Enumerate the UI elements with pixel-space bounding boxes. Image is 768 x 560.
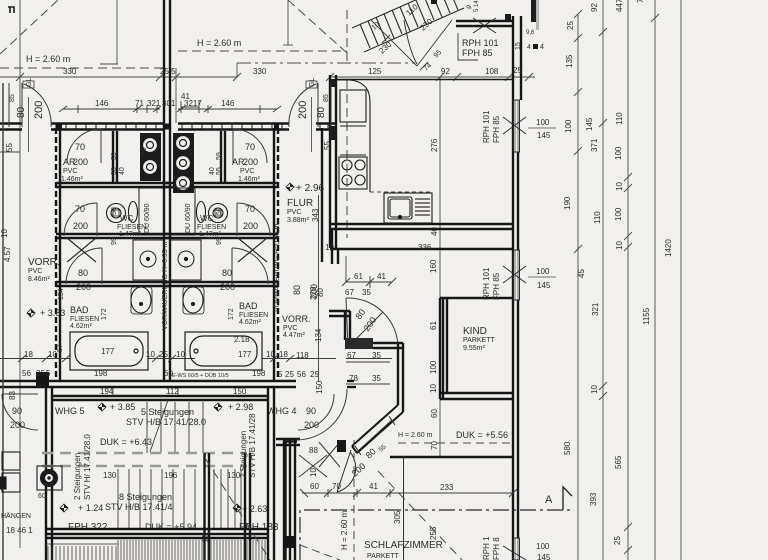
svg-text:447: 447 xyxy=(615,0,624,12)
svg-text:10: 10 xyxy=(615,241,624,250)
svg-text:KIND: KIND xyxy=(463,326,487,337)
svg-text:60: 60 xyxy=(310,482,319,491)
svg-text:4.62m²: 4.62m² xyxy=(239,319,261,326)
svg-text:RPH 1: RPH 1 xyxy=(482,536,491,560)
svg-text:336: 336 xyxy=(418,243,432,252)
svg-text:2.18: 2.18 xyxy=(234,335,250,344)
svg-text:35: 35 xyxy=(362,288,371,297)
svg-text:PARKETT: PARKETT xyxy=(367,553,399,560)
svg-text:FPH 85: FPH 85 xyxy=(462,48,493,58)
svg-text:200: 200 xyxy=(33,101,45,119)
svg-text:200: 200 xyxy=(304,420,319,430)
svg-text:88: 88 xyxy=(309,446,318,455)
svg-text:STV H/B 17.41/28.0: STV H/B 17.41/28.0 xyxy=(126,417,206,427)
svg-text:FPH 85: FPH 85 xyxy=(492,115,501,143)
svg-text:60: 60 xyxy=(38,493,46,500)
svg-text:3.88m²: 3.88m² xyxy=(287,217,309,224)
svg-text:130: 130 xyxy=(227,471,241,480)
svg-text:4.57: 4.57 xyxy=(3,246,12,262)
svg-text:WC: WC xyxy=(200,214,214,223)
svg-text:BAD: BAD xyxy=(70,305,89,315)
svg-text:55: 55 xyxy=(111,167,118,175)
svg-text:15: 15 xyxy=(515,42,522,50)
svg-text:PVC: PVC xyxy=(63,168,77,175)
svg-text:BAD: BAD xyxy=(239,301,258,311)
svg-text:190: 190 xyxy=(563,196,572,210)
svg-text:DU 60/90: DU 60/90 xyxy=(185,203,192,233)
svg-text:25: 25 xyxy=(36,369,45,378)
svg-text:55: 55 xyxy=(323,141,332,150)
svg-text:145: 145 xyxy=(537,281,551,290)
svg-text:1155: 1155 xyxy=(642,307,651,325)
svg-text:69: 69 xyxy=(187,147,194,155)
svg-text:+ 3.85: + 3.85 xyxy=(110,402,135,412)
svg-text:5: 5 xyxy=(46,369,51,378)
svg-text:78: 78 xyxy=(349,374,358,383)
svg-text:343: 343 xyxy=(311,208,320,222)
svg-text:80: 80 xyxy=(292,285,302,295)
svg-text:10: 10 xyxy=(615,182,624,191)
svg-text:172: 172 xyxy=(101,308,108,320)
svg-text:4: 4 xyxy=(527,44,531,51)
svg-text:108: 108 xyxy=(485,67,499,76)
svg-text:8.46m²: 8.46m² xyxy=(28,276,50,283)
svg-text:DUK = +5.56: DUK = +5.56 xyxy=(456,430,508,440)
svg-text:10: 10 xyxy=(266,350,275,359)
svg-text:321: 321 xyxy=(147,99,161,108)
svg-text:DUK = +5.94: DUK = +5.94 xyxy=(145,522,197,532)
svg-text:E-WS 60/5 + DÜB 10/5: E-WS 60/5 + DÜB 10/5 xyxy=(172,372,229,379)
svg-text:60: 60 xyxy=(430,409,439,418)
svg-text:FLIESEN: FLIESEN xyxy=(239,312,268,319)
svg-text:GL: GL xyxy=(26,78,33,87)
svg-text:3217: 3217 xyxy=(184,99,202,108)
svg-text:61: 61 xyxy=(429,321,438,330)
svg-text:92: 92 xyxy=(441,67,450,76)
svg-text:177: 177 xyxy=(101,347,115,356)
svg-text:40: 40 xyxy=(119,167,126,175)
svg-text:45: 45 xyxy=(577,269,586,278)
svg-text:61: 61 xyxy=(354,272,363,281)
svg-text:305: 305 xyxy=(393,510,402,524)
svg-text:18: 18 xyxy=(24,350,33,359)
svg-text:85: 85 xyxy=(9,94,16,102)
svg-text:90: 90 xyxy=(306,406,316,416)
svg-text:+ 2.98: + 2.98 xyxy=(228,402,253,412)
svg-text:194: 194 xyxy=(100,387,114,396)
svg-text:18 46 1: 18 46 1 xyxy=(6,526,33,535)
svg-text:FLIESEN: FLIESEN xyxy=(70,316,99,323)
svg-text:VORR.: VORR. xyxy=(282,314,311,324)
svg-text:393: 393 xyxy=(589,492,598,506)
svg-text:AR: AR xyxy=(63,157,76,167)
svg-text:200: 200 xyxy=(243,157,258,167)
svg-text:1420: 1420 xyxy=(664,239,673,257)
svg-text:301: 301 xyxy=(162,99,176,108)
svg-text:67: 67 xyxy=(347,351,356,360)
svg-text:150: 150 xyxy=(315,380,324,394)
svg-text:5 Steigungen: 5 Steigungen xyxy=(141,407,194,417)
svg-text:118: 118 xyxy=(296,351,309,360)
svg-text:10: 10 xyxy=(590,385,599,394)
svg-text:220: 220 xyxy=(309,286,318,300)
svg-text:200: 200 xyxy=(10,420,25,430)
svg-text:WHG 4: WHG 4 xyxy=(267,406,297,416)
svg-text:10: 10 xyxy=(429,384,438,393)
svg-text:255: 255 xyxy=(429,526,438,540)
svg-text:80: 80 xyxy=(16,106,27,118)
svg-text:100: 100 xyxy=(536,542,550,551)
svg-text:371: 371 xyxy=(590,138,599,152)
svg-text:233: 233 xyxy=(440,483,454,492)
svg-text:35: 35 xyxy=(372,351,381,360)
svg-text:200: 200 xyxy=(73,221,88,231)
svg-text:330: 330 xyxy=(63,67,77,76)
svg-text:VORR.: VORR. xyxy=(28,257,60,268)
svg-text:1.46m²: 1.46m² xyxy=(238,176,260,183)
svg-text:+ 3.83: + 3.83 xyxy=(40,308,65,318)
svg-text:110: 110 xyxy=(593,211,602,224)
svg-text:50: 50 xyxy=(111,207,118,215)
svg-text:VORMAUERUNG H=0.95 m: VORMAUERUNG H=0.95 m xyxy=(274,223,281,312)
svg-text:25: 25 xyxy=(159,350,168,359)
svg-text:WC: WC xyxy=(120,214,134,223)
svg-text:145: 145 xyxy=(537,131,551,140)
svg-text:70: 70 xyxy=(245,204,255,214)
svg-text:VORMAUERUNG H=0.95 m: VORMAUERUNG H=0.95 m xyxy=(162,241,169,330)
svg-text:69: 69 xyxy=(141,147,148,155)
svg-text:70: 70 xyxy=(75,204,85,214)
svg-text:+ 1.24: + 1.24 xyxy=(78,503,103,513)
svg-text:40: 40 xyxy=(209,167,216,175)
svg-text:HÄNGEN: HÄNGEN xyxy=(1,512,31,520)
svg-text:FPH 8: FPH 8 xyxy=(492,537,501,560)
svg-text:41: 41 xyxy=(369,482,378,491)
svg-text:146: 146 xyxy=(221,99,235,108)
svg-text:100: 100 xyxy=(564,119,573,133)
svg-text:4.62m²: 4.62m² xyxy=(70,323,92,330)
svg-text:100: 100 xyxy=(536,267,550,276)
svg-text:59: 59 xyxy=(216,152,223,160)
svg-text:60: 60 xyxy=(164,369,173,378)
svg-text:85: 85 xyxy=(323,94,330,102)
svg-text:25: 25 xyxy=(513,66,522,75)
svg-text:RPH 101: RPH 101 xyxy=(482,110,491,143)
svg-text:70: 70 xyxy=(245,142,255,152)
svg-text:H = 2.60 m: H = 2.60 m xyxy=(26,54,70,64)
svg-text:135: 135 xyxy=(565,54,574,68)
svg-text:55: 55 xyxy=(216,167,223,175)
svg-text:92: 92 xyxy=(590,3,599,12)
svg-text:25: 25 xyxy=(566,21,575,30)
svg-text:198: 198 xyxy=(252,369,266,378)
svg-text:83: 83 xyxy=(8,391,17,400)
svg-text:25: 25 xyxy=(201,533,210,542)
svg-text:100: 100 xyxy=(614,146,623,160)
svg-text:100: 100 xyxy=(536,118,550,127)
svg-text:80: 80 xyxy=(78,268,88,278)
svg-text:50: 50 xyxy=(216,207,223,215)
svg-text:1.46m²: 1.46m² xyxy=(61,176,83,183)
svg-text:18: 18 xyxy=(279,350,288,359)
svg-text:196: 196 xyxy=(164,471,178,480)
svg-text:70: 70 xyxy=(75,142,85,152)
svg-text:+ 2.96: + 2.96 xyxy=(296,183,325,194)
svg-text:10: 10 xyxy=(146,350,155,359)
svg-text:99: 99 xyxy=(111,237,118,245)
svg-text:10: 10 xyxy=(325,243,334,252)
svg-text:172: 172 xyxy=(228,308,235,320)
svg-text:WHG 5: WHG 5 xyxy=(55,406,85,416)
svg-text:PVC: PVC xyxy=(240,168,254,175)
svg-text:71: 71 xyxy=(135,99,144,108)
svg-text:200: 200 xyxy=(76,282,91,292)
svg-text:FLUR: FLUR xyxy=(287,198,313,209)
svg-text:RPH 101: RPH 101 xyxy=(482,267,491,300)
svg-text:7: 7 xyxy=(636,0,645,3)
svg-text:160: 160 xyxy=(429,259,438,273)
svg-text:70: 70 xyxy=(430,441,439,450)
svg-text:10: 10 xyxy=(176,350,185,359)
svg-text:1.47m²: 1.47m² xyxy=(199,231,221,238)
svg-text:RPH 101: RPH 101 xyxy=(462,38,499,48)
svg-text:H = 2.60 m: H = 2.60 m xyxy=(197,38,241,48)
svg-text:125: 125 xyxy=(368,67,382,76)
svg-text:67: 67 xyxy=(345,288,354,297)
svg-text:FLIESEN: FLIESEN xyxy=(117,224,146,231)
svg-text:35: 35 xyxy=(372,374,381,383)
svg-text:2 Steigungen: 2 Steigungen xyxy=(73,453,82,500)
svg-text:321: 321 xyxy=(591,302,600,316)
svg-text:1.47m²: 1.47m² xyxy=(119,231,141,238)
svg-text:PVC: PVC xyxy=(28,268,42,275)
svg-text:200: 200 xyxy=(297,101,309,119)
svg-text:STV H/B 17.41/28: STV H/B 17.41/28 xyxy=(248,413,257,478)
svg-text:H = 2.60 m: H = 2.60 m xyxy=(398,432,433,439)
svg-text:110: 110 xyxy=(615,112,624,125)
svg-text:9,6: 9,6 xyxy=(526,30,535,36)
svg-text:100: 100 xyxy=(429,360,438,374)
svg-text:80: 80 xyxy=(316,106,327,118)
svg-text:145: 145 xyxy=(537,553,551,560)
svg-text:57: 57 xyxy=(57,344,64,352)
svg-text:DUK = +6.43: DUK = +6.43 xyxy=(100,437,152,447)
svg-text:FPH 85: FPH 85 xyxy=(492,272,501,300)
svg-text:H = 2.60 m: H = 2.60 m xyxy=(340,510,349,550)
svg-text:130: 130 xyxy=(103,471,117,480)
svg-text:FPH 322: FPH 322 xyxy=(68,522,108,533)
svg-text:200: 200 xyxy=(220,282,235,292)
svg-text:PVC: PVC xyxy=(283,325,297,332)
svg-text:565: 565 xyxy=(614,455,623,469)
svg-text:134: 134 xyxy=(314,328,323,342)
svg-text:9.55m²: 9.55m² xyxy=(463,345,485,352)
svg-text:59: 59 xyxy=(111,152,118,160)
svg-text:5 14 5: 5 14 5 xyxy=(474,0,480,12)
svg-text:PARKETT: PARKETT xyxy=(463,337,495,344)
svg-text:PVC: PVC xyxy=(287,209,301,216)
svg-text:90: 90 xyxy=(12,406,22,416)
svg-text:GL: GL xyxy=(309,78,316,87)
svg-text:56: 56 xyxy=(297,370,306,379)
svg-text:10: 10 xyxy=(0,229,9,238)
svg-text:276: 276 xyxy=(430,138,439,152)
svg-text:25 5: 25 5 xyxy=(160,67,176,76)
svg-text:112: 112 xyxy=(166,387,179,396)
svg-text:198: 198 xyxy=(94,369,108,378)
svg-text:AR: AR xyxy=(232,157,245,167)
svg-text:A: A xyxy=(545,494,553,506)
svg-text:25: 25 xyxy=(285,370,294,379)
svg-text:8 Steigungen: 8 Steigungen xyxy=(119,492,172,502)
svg-text:145: 145 xyxy=(585,117,594,131)
svg-text:55: 55 xyxy=(5,143,14,152)
svg-text:4.47m²: 4.47m² xyxy=(283,332,305,339)
svg-text:56: 56 xyxy=(22,369,31,378)
svg-text:200: 200 xyxy=(243,221,258,231)
svg-text:330: 330 xyxy=(253,67,267,76)
svg-text:STV H/ 17.41/28.0: STV H/ 17.41/28.0 xyxy=(83,434,92,500)
svg-text:150: 150 xyxy=(233,387,247,396)
svg-text:41: 41 xyxy=(377,272,386,281)
svg-text:4: 4 xyxy=(540,44,544,51)
svg-text:40: 40 xyxy=(430,227,439,236)
svg-text:80: 80 xyxy=(222,268,232,278)
svg-text:154: 154 xyxy=(58,288,65,300)
svg-text:146: 146 xyxy=(95,99,109,108)
svg-text:25: 25 xyxy=(310,370,319,379)
svg-text:10: 10 xyxy=(309,468,318,477)
svg-text:5: 5 xyxy=(278,370,283,379)
svg-text:FLIESEN: FLIESEN xyxy=(197,224,226,231)
svg-text:99: 99 xyxy=(216,237,223,245)
svg-text:100: 100 xyxy=(614,207,623,221)
svg-text:580: 580 xyxy=(563,441,572,455)
svg-text:25: 25 xyxy=(613,536,622,545)
svg-text:177: 177 xyxy=(238,350,252,359)
